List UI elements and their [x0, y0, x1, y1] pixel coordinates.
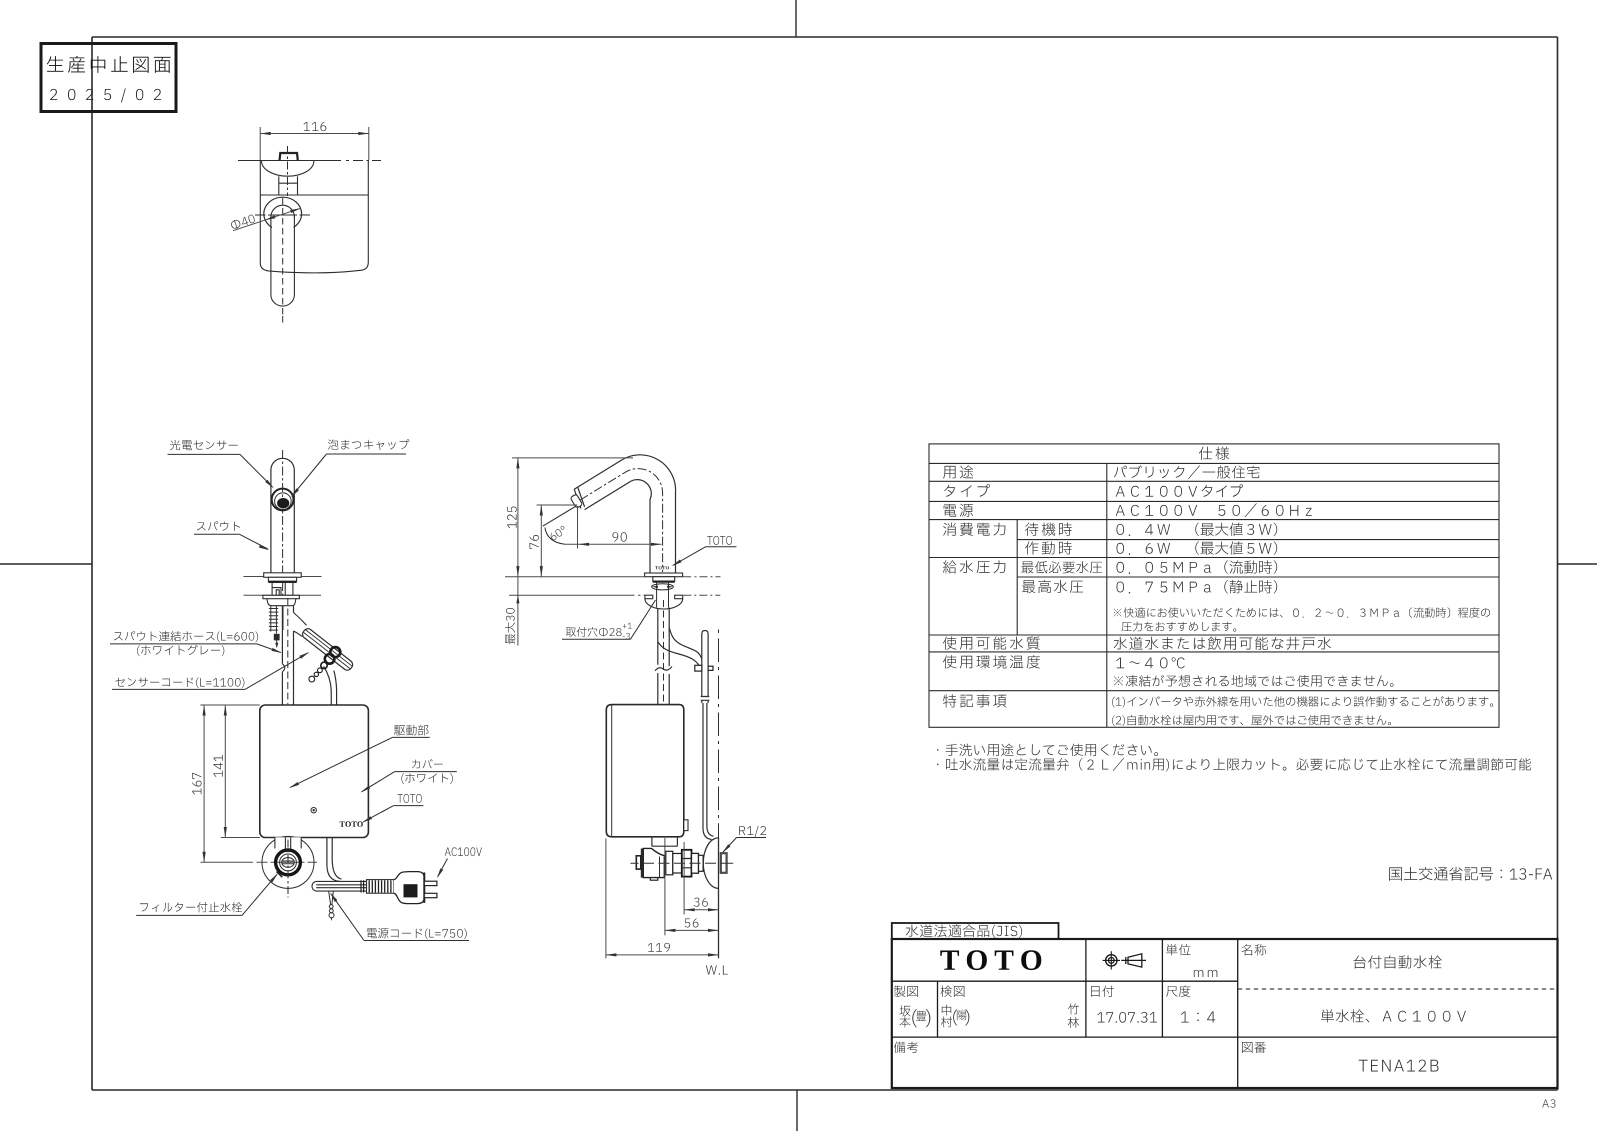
dimension 119: [605, 839, 607, 959]
label spout connection hose: [114, 631, 258, 642]
mid view: flange: [645, 573, 683, 577]
JIS compliance box: [892, 923, 1059, 939]
spec table grid: [929, 444, 1499, 727]
frame centering tick left: [0, 563, 92, 565]
left view: lower washer: [263, 595, 300, 598]
mid view: shank under flange: [653, 577, 675, 582]
top view: escutcheon half-ellipse: [262, 161, 314, 176]
filter stopcock neck: [275, 837, 301, 848]
left view: white supply hose vertical: [282, 606, 293, 705]
stamp text line2: [50, 88, 161, 102]
label spout: [197, 521, 240, 531]
mid view: stop screw on right pipe: [695, 665, 713, 671]
top view: dimension 116: [260, 127, 369, 160]
left view: TOTO logo on box: [340, 821, 363, 826]
frame centering tick top: [795, 0, 797, 37]
mid view: mounting hole ellipse + arrows: [652, 584, 674, 590]
zuban cell: [1242, 1042, 1266, 1053]
label power cord: [367, 928, 467, 939]
top view: spout tube: [271, 215, 295, 306]
mid view: pipe centerline: [663, 600, 665, 703]
frame centering tick bottom: [796, 1090, 798, 1131]
dimension 36: [683, 842, 685, 915]
top view: dimension phi40 leader: [233, 208, 301, 230]
mid view: wall line: [718, 630, 720, 839]
mid view: counter bottom line: [509, 594, 720, 596]
left view: hose centerline: [287, 598, 289, 704]
production-discontinued stamp box: [41, 44, 176, 112]
label W.L: [706, 965, 728, 974]
mid view: dome under counter: [645, 599, 683, 609]
left view: threaded tail pipes: [269, 606, 283, 634]
left view: locknut: [267, 599, 296, 606]
mid view: 60 deg arc: [545, 528, 565, 545]
unit cell: [1166, 944, 1190, 956]
left view: hose connector curve: [294, 613, 307, 637]
label AC100V: [445, 847, 482, 856]
filter stopcock bold ring: [276, 850, 301, 875]
mid view: controller box side: [606, 705, 684, 837]
mid view: dimension 125: [517, 458, 519, 577]
left view: controller box: [260, 705, 369, 838]
label sensor cord: [115, 677, 244, 688]
mid view: dimension 76: [540, 505, 542, 577]
left view: flange: [264, 573, 302, 578]
notes under table: [937, 744, 1158, 756]
left view: counter top line: [244, 576, 322, 578]
left view: LED: [311, 808, 316, 813]
mid view: valve neck: [652, 837, 678, 846]
dimension 56: [664, 838, 666, 935]
plug body: [394, 872, 425, 904]
cord strain relief hatch: [367, 880, 394, 894]
mid view: valve body: [643, 848, 664, 877]
mid view: outlet cap lines: [574, 487, 584, 508]
left view: chain beads: [309, 647, 340, 682]
mid view: outlet nub: [570, 494, 583, 508]
stamp text line1: [47, 56, 171, 73]
mid view: spout centerline: [580, 469, 662, 572]
mid view: valve left caps: [641, 849, 644, 878]
top view: spout tube inner arc: [271, 205, 295, 217]
TOTO company logo: [940, 950, 1041, 970]
bikou cell: [894, 1042, 918, 1054]
cable tie hanging: [329, 891, 334, 918]
name cell dashed divider: [1238, 988, 1558, 990]
top view: counter back line: [260, 194, 368, 196]
title block outer: [892, 939, 1558, 1088]
projection symbol cone: [1121, 954, 1146, 967]
mid view: 60 deg vertex line: [543, 506, 577, 526]
scale cell: [1166, 986, 1190, 997]
label kouden sensor: [170, 440, 238, 450]
extension lines for 167/141: [200, 705, 317, 862]
mid view: valve mid section: [666, 851, 682, 875]
label mounting hole: [566, 627, 622, 637]
top view: crosshair: [255, 214, 310, 216]
top view: tube centerline: [282, 198, 284, 323]
label TOTO mid: [707, 536, 732, 545]
plug prongs: [424, 881, 437, 885]
top view: horizontal centerline: [238, 160, 381, 162]
spec table texts: [1199, 447, 1229, 460]
A3 mark: [1542, 1099, 1555, 1107]
label filter stop valve: [140, 902, 242, 912]
mid view: S-curve hose: [658, 628, 702, 672]
label kudoubu: [394, 725, 428, 736]
label cover: [412, 759, 443, 768]
mid view: valve axis centerline: [631, 862, 734, 864]
mid view: washers below counter: [645, 595, 653, 599]
left view: shank between counter: [272, 583, 293, 596]
mid view: right pipe with cap: [701, 631, 710, 829]
seizu cell: [894, 986, 918, 997]
top view: spout circle: [264, 197, 302, 230]
projection symbol target: [1103, 951, 1120, 969]
mid view: dimension 90: [565, 543, 662, 545]
left view: hose-to-box tube: [324, 666, 337, 704]
filter stopcock outer circle: [262, 836, 314, 888]
left view: photoelectric sensor: [272, 489, 294, 511]
left view: sensor cord connector: [274, 634, 280, 641]
power cord vertical + elbow: [327, 838, 342, 882]
left view: spout centerline: [282, 450, 284, 599]
left view: diagonal sleeve hose: [301, 627, 355, 672]
label TOTO: [397, 794, 421, 803]
name label: [1242, 944, 1267, 955]
mid view: box clip tab: [684, 820, 688, 831]
label R1/2: [739, 826, 766, 837]
ministry code 13-FA: [1389, 867, 1552, 881]
dimension 141: [224, 705, 226, 838]
frame centering tick right: [1558, 563, 1598, 565]
label awamatsu cap: [328, 439, 409, 449]
mid view: valve bottom nub: [650, 878, 658, 881]
filter stopcock vertical centerline: [287, 840, 289, 898]
mid view: right pipe elbow to wall: [703, 826, 714, 840]
top view: faucet cap: [280, 153, 298, 161]
date cell: [1091, 986, 1114, 997]
top view: basin outline: [260, 161, 368, 273]
dimension 167: [203, 705, 205, 862]
title block grid: [892, 939, 1558, 1088]
top view: neck: [279, 176, 298, 195]
top view: phi40 text: [230, 214, 256, 230]
top view: cap centerline: [287, 146, 289, 196]
dimension max30: [517, 577, 519, 646]
mid view: supply pipe below dome: [658, 608, 669, 706]
mid view: TOTO logo on pipe: [655, 566, 669, 569]
left view: counter bottom line: [244, 594, 322, 596]
mid view: valve hex nut: [682, 850, 692, 877]
mid view: counter top line: [505, 576, 721, 578]
mid view: valve collar: [692, 853, 699, 873]
kenzu cell: [941, 986, 965, 997]
mid view: spout inner edge: [585, 480, 652, 573]
power cord coil: [312, 881, 367, 891]
mid view: 60deg text: [549, 525, 567, 541]
left view: spout tube: [271, 458, 294, 573]
mid view: spout outer edge: [574, 455, 675, 573]
mid view: wall escutcheon dome: [703, 838, 718, 889]
mid view: R1/2 stub: [721, 853, 727, 873]
